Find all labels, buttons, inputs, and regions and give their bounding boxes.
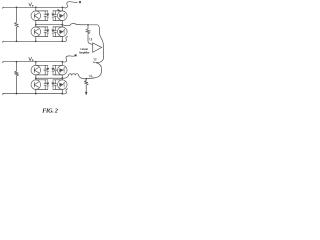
wire cell loop top <box>36 64 48 66</box>
wire cell L rowA to mid <box>35 75 37 78</box>
wire L2 to output node 14 <box>79 76 87 79</box>
cell switch circle at (62.3,84.6) <box>58 80 68 90</box>
node dot (62.3,93.6) <box>61 93 63 95</box>
wire cell loop bottom <box>53 88 62 90</box>
node dot (35.8,7.3) <box>35 6 37 8</box>
impedance Z4 on load branch <box>84 79 88 92</box>
diode D (cell) <box>52 65 54 75</box>
wire cell loop top <box>53 26 62 28</box>
impedance Z3 below node 18 <box>86 25 90 38</box>
node dot 18 <box>87 24 89 26</box>
wire rail bus y=7.3 <box>3 7 63 8</box>
wire stub rail to cell R rowA <box>61 62 63 66</box>
wire rail bus y=41.3 <box>3 41 63 42</box>
wire mid bus <box>36 24 63 26</box>
wire mid bus <box>36 77 63 79</box>
cell switch circle at (62.3,70.1) <box>58 65 68 75</box>
capacitor C (cell) <box>44 27 46 37</box>
inductor L1 (wire hop) <box>70 23 78 25</box>
capacitor C (cell) <box>44 65 46 75</box>
transistor symbol inside cell <box>34 29 38 34</box>
arrow pointer at cell Q2 <box>57 9 60 11</box>
diode D (cell) <box>47 11 49 21</box>
node dot 14 <box>85 78 87 80</box>
diode D (cell) <box>47 65 49 75</box>
capacitor C (cell) <box>54 27 56 37</box>
diode D (cell) <box>47 27 49 37</box>
wire cell R rowB to rail <box>61 89 63 93</box>
label va <box>29 3 33 6</box>
wire cell loop bottom <box>53 36 62 38</box>
wire cell loop top <box>36 79 48 81</box>
wire squiggle rail1 to star 10a <box>62 2 77 8</box>
node star 10b <box>75 54 77 56</box>
wire cell L rowB to rail <box>35 37 37 42</box>
wire cell L rowA to mid <box>35 21 37 25</box>
cell switch circle at (62.3,15.7) <box>58 11 68 21</box>
wire hop to node 18 <box>78 23 88 25</box>
wire cell R rowB to rail <box>61 37 63 42</box>
transistor symbol inside cell (mirrored) <box>59 29 65 35</box>
wire Z3 to amp input <box>88 38 93 45</box>
wire node16 S-curve down to output bus <box>86 63 101 79</box>
label 14 <box>89 75 92 78</box>
wire stub rail to cell R rowA <box>61 7 63 11</box>
wire mid bottom to coil <box>62 76 68 79</box>
transistor symbol inside cell <box>34 13 38 18</box>
node dot (35.8,61.7) <box>35 61 37 63</box>
wire stub mid to cell L rowB <box>35 78 37 80</box>
node dot (16.5,61.7) <box>16 61 18 63</box>
transistor symbol inside cell <box>34 82 38 87</box>
wire stub mid to cell L rowB <box>35 25 37 27</box>
transistor symbol inside cell (mirrored) <box>59 82 65 88</box>
capacitor C (cell) <box>54 11 56 21</box>
node dot mid R <box>61 24 63 26</box>
wire cell loop bottom <box>53 74 62 76</box>
cell switch circle at (35.8,70.1) <box>31 65 41 75</box>
op-amp U1 triangle <box>93 43 102 52</box>
wire cell loop bottom <box>53 20 62 22</box>
wire cell loop top <box>36 10 48 12</box>
node dot (62.3,7.3) <box>61 6 63 8</box>
impedance Z (zigzag source branch x=16.5) <box>15 62 19 94</box>
svg-text:FIG. 2: FIG. 2 <box>42 108 58 114</box>
load arrow <box>85 92 87 95</box>
node dot (16.5,7.3) <box>16 6 18 8</box>
node dot (35.8,41.3) <box>35 40 37 42</box>
wire stub rail to cell L rowA <box>35 7 37 11</box>
wire cell loop bottom <box>36 36 48 38</box>
label vb <box>29 57 33 60</box>
inductor L2 (coil) <box>68 74 78 76</box>
wire cell loop top <box>53 79 62 81</box>
label 16 <box>94 58 96 60</box>
label 18 <box>90 38 92 40</box>
wire cell loop top <box>53 10 62 12</box>
node dot (35.8,93.6) <box>35 93 37 95</box>
svg-text:Amplifier: Amplifier <box>79 50 90 54</box>
diode D (cell) <box>52 80 54 90</box>
node dot (16.5,41.3) <box>16 40 18 42</box>
node dot (16.5,93.6) <box>16 93 18 95</box>
impedance Z (zigzag source branch x=16.5) <box>15 7 19 41</box>
wire cell R rowA to mid <box>61 75 63 78</box>
wire cell loop bottom <box>36 74 48 76</box>
transistor symbol inside cell (mirrored) <box>59 13 65 19</box>
cell switch circle at (35.8,31.7) <box>31 27 41 37</box>
cell switch circle at (35.8,15.7) <box>31 11 41 21</box>
wire rail bus y=61.7 <box>3 62 63 63</box>
transistor symbol inside cell <box>34 68 38 73</box>
node dot (62.3,41.3) <box>61 40 63 42</box>
wire cell loop top <box>36 26 48 28</box>
capacitor C (cell) <box>54 80 56 90</box>
node dot mid R <box>61 77 63 79</box>
node dot (62.3,61.7) <box>61 61 63 63</box>
svg-text:Linear: Linear <box>81 47 88 51</box>
wire node18 right and down to amp output join <box>88 25 103 57</box>
wire rail bus y=93.6 <box>3 93 63 94</box>
capacitor C (cell) <box>54 65 56 75</box>
wire stub mid to cell R rowB <box>61 78 63 80</box>
wire mid top to hop <box>62 25 70 26</box>
diode D (cell) <box>47 80 49 90</box>
capacitor C (cell) <box>44 11 46 21</box>
wire stub mid to cell R rowB <box>61 25 63 27</box>
wire cell loop top <box>53 64 62 66</box>
wire amp output down to node 16 <box>98 57 103 63</box>
cell switch circle at (62.3,31.7) <box>58 27 68 37</box>
wire cell loop bottom <box>36 20 48 22</box>
wire pigtail rail2 end <box>62 37 67 42</box>
label arrow 16 <box>93 61 96 64</box>
wire squiggle rail3 to star 10b <box>62 56 74 62</box>
diode D (cell) <box>52 11 54 21</box>
node dot 16 <box>96 62 98 64</box>
capacitor C (cell) <box>44 80 46 90</box>
wire cell L rowB to rail <box>35 89 37 93</box>
node dot mid L <box>35 24 37 26</box>
cell switch circle at (35.8,84.6) <box>31 80 41 90</box>
transistor symbol inside cell (mirrored) <box>59 67 65 73</box>
diode D (cell) <box>52 27 54 37</box>
node star 10a <box>79 1 81 3</box>
node dot mid L <box>35 77 37 79</box>
wire pigtail rail4 end <box>62 89 67 94</box>
wire cell loop bottom <box>36 88 48 90</box>
wire cell R rowA to mid <box>61 21 63 25</box>
wire stub rail to cell L rowA <box>35 62 37 66</box>
